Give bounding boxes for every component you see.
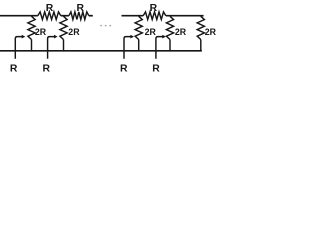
svg-text:2R: 2R [205,27,217,37]
wire top rail stub after R2 [89,15,93,17]
svg-text:2R: 2R [145,27,157,37]
wire top rail left segment [0,15,38,17]
switch arrow S1 arm [15,37,22,59]
wire 2R #4 bottom lead [169,40,171,51]
wire bottom rail [0,50,202,52]
svg-text:R: R [152,63,160,74]
switch arrow S2 head [54,35,58,39]
resistor 2R #4 body [166,16,173,39]
switch arrow S1 head [22,35,26,39]
switch arrow S4 head [162,35,166,39]
wire 2R #5 bottom lead [200,40,202,51]
switch arrow S4 arm [156,37,163,59]
svg-text:R: R [46,3,54,14]
svg-text:R: R [120,63,128,74]
wire 2R #3 bottom lead [138,40,140,51]
svg-text:2R: 2R [35,27,47,37]
wire top rail between R1 and R2 (node B) [61,15,69,17]
resistor 2R #1 body [28,16,35,39]
resistor 2R #2 body [60,16,67,39]
switch arrow S2 arm [48,37,55,59]
wire top rail from R3 to right end [166,15,204,17]
resistor R2 [69,12,89,20]
switch arrow S3 arm [124,37,131,59]
resistor R1 [38,12,61,20]
resistor 2R #3 body [135,16,142,39]
svg-text:2R: 2R [175,27,187,37]
svg-text:2R: 2R [68,27,80,37]
svg-text:R: R [10,63,18,74]
wire top rail right section start to R3 [122,15,144,17]
resistor 2R #5 terminator body [197,16,204,39]
switch arrow S3 head [130,35,134,39]
ellipsis dots between ladder sections [100,25,111,27]
wire 2R #2 bottom lead [63,40,65,51]
resistor R3 [143,12,166,20]
svg-text:R: R [42,63,50,74]
wire 2R #1 bottom lead [31,40,33,51]
svg-text:R: R [150,3,158,14]
svg-text:R: R [77,3,85,14]
